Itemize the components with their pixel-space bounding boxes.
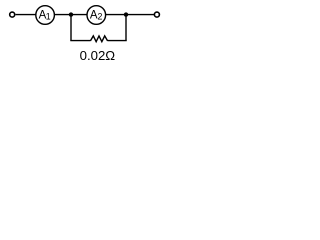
wire (right lead of resistor) [108, 40, 127, 42]
wire (left vertical of shunt branch) [70, 15, 72, 41]
wire [106, 14, 126, 16]
wire [126, 14, 154, 16]
wire (right vertical of shunt branch) [125, 15, 127, 41]
wire (left lead of resistor) [70, 40, 90, 42]
ammeter A2 [87, 6, 106, 25]
terminal left [10, 12, 15, 17]
svg-text:2: 2 [98, 12, 103, 22]
terminal right [154, 12, 159, 17]
node (junction dot left) [69, 12, 73, 16]
ammeter A1 [36, 6, 55, 25]
wire [71, 14, 87, 16]
wire [55, 14, 71, 16]
svg-text:0.02Ω: 0.02Ω [80, 48, 116, 63]
wire [16, 14, 36, 16]
node (junction dot right) [124, 12, 128, 16]
resistor R (shunt) [90, 36, 107, 42]
svg-text:1: 1 [46, 12, 51, 22]
